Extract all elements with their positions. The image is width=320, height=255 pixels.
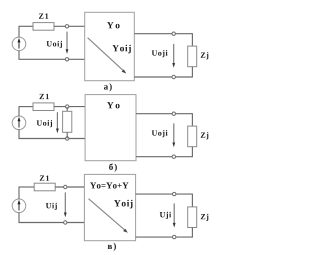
label Z1 (fig a): [39, 13, 48, 18]
label Zj (fig b): [201, 132, 209, 139]
current source I1 (fig c): [12, 199, 26, 213]
wire bottom input (fig b): [19, 138, 86, 140]
label Uji (fig c): [160, 212, 171, 219]
label Uij (fig c): [46, 203, 57, 210]
voltage arrow Uoij (fig a): [66, 32, 69, 54]
wire top-left to Z1 (fig c): [19, 186, 35, 188]
resistor Z1 (fig a): [33, 23, 54, 31]
label Yoij (fig c): [114, 200, 132, 209]
wire Z1 to box input top (fig b): [54, 106, 85, 108]
wire source-to-top (fig a): [18, 26, 20, 37]
label Yoij (fig a): [112, 45, 130, 54]
label Yo (fig b): [107, 102, 120, 108]
wire bottom input (fig c): [19, 222, 85, 224]
wire load right bottom (fig a): [191, 67, 193, 78]
node output terminal bottom (fig c): [173, 235, 176, 238]
wire top-left to Z1 (fig a): [19, 25, 34, 27]
two-port network box (fig b): [85, 95, 136, 161]
node input terminal bottom (fig a): [65, 58, 68, 61]
transfer arrow (fig c): [89, 199, 128, 233]
wire source-to-bottom (fig c): [18, 212, 20, 222]
wire shunt box bottom to terminal (fig b): [66, 132, 68, 138]
node input terminal top (fig a): [65, 25, 68, 28]
node input terminal bottom (fig b): [66, 137, 69, 140]
wire output top (fig c): [136, 193, 193, 195]
resistor Z1 (fig b): [33, 103, 54, 111]
label Uoij (fig b): [37, 120, 52, 127]
node input terminal top (fig b): [66, 105, 69, 108]
node output terminal top (fig c): [173, 192, 176, 195]
subfigure label b): [109, 163, 117, 171]
wire Z1 to box input top (fig c): [55, 186, 84, 188]
wire source-to-top (fig c): [18, 187, 20, 199]
wire output bottom (fig c): [136, 236, 193, 238]
wire output top (fig a): [134, 33, 192, 35]
resistor Z1 (fig c): [34, 183, 55, 191]
load impedance Zj (fig b): [188, 126, 197, 147]
label Yo=Yo+Y (fig c): [90, 183, 128, 189]
voltage arrow Uij (fig c): [64, 192, 67, 217]
subfigure label a): [104, 83, 112, 91]
current source I1 (fig a): [12, 37, 26, 51]
wire output bottom (fig a): [134, 76, 192, 78]
label Z1 (fig c): [40, 176, 49, 181]
label Z1 (fig b): [40, 94, 49, 99]
wire load right bottom (fig b): [191, 147, 193, 158]
two-port network box (fig a): [85, 12, 135, 80]
node output terminal top (fig b): [172, 112, 175, 115]
wire load right bottom (fig c): [191, 228, 193, 238]
voltage arrow Uji (fig c): [173, 203, 176, 227]
wire load right top (fig b): [191, 113, 193, 126]
node input terminal top (fig c): [64, 185, 67, 188]
wire source-to-bottom (fig a): [18, 51, 20, 60]
wire output bottom (fig b): [136, 156, 192, 158]
label Uoji (fig a): [152, 50, 168, 57]
shunt impedance box (fig b): [63, 111, 72, 132]
wire load right top (fig c): [191, 194, 193, 207]
wire source-to-top (fig b): [18, 107, 20, 117]
voltage arrow Uoji (fig b): [172, 123, 175, 147]
wire Z1 to box input top (fig a): [54, 25, 85, 27]
transfer arrow (fig a): [88, 38, 127, 74]
wire bottom input (fig a): [19, 58, 85, 60]
load impedance Zj (fig a): [188, 46, 197, 67]
label Uoji (fig b): [152, 130, 168, 137]
node output terminal bottom (fig a): [172, 75, 175, 78]
label Uoij (fig a): [47, 41, 62, 48]
current source I1 (fig b): [12, 116, 26, 130]
load impedance Zj (fig c): [188, 207, 197, 228]
node input terminal bottom (fig c): [64, 221, 67, 224]
label Yo (fig a): [107, 22, 120, 28]
wire load right top (fig a): [191, 33, 193, 46]
label Zj (fig a): [201, 52, 209, 59]
node output terminal top (fig a): [172, 32, 175, 35]
wire source-to-bottom (fig b): [18, 129, 20, 138]
wire top-left to Z1 (fig b): [19, 106, 34, 108]
label Zj (fig c): [201, 214, 209, 221]
node output terminal bottom (fig b): [172, 155, 175, 158]
two-port network box (fig c): [84, 174, 135, 240]
wire output top (fig b): [136, 113, 192, 115]
voltage arrow Uoij (fig b): [56, 112, 59, 133]
voltage arrow Uoji (fig a): [172, 44, 175, 68]
wire terminal to shunt box top (fig b): [66, 107, 68, 111]
subfigure label v): [108, 243, 116, 251]
